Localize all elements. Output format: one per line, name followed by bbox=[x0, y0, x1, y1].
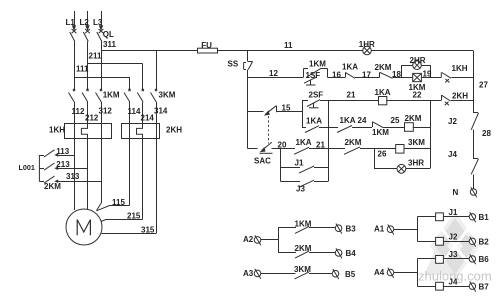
svg-text:FU: FU bbox=[201, 41, 212, 50]
svg-text:3HR: 3HR bbox=[408, 158, 424, 167]
contactor 3KM main pole 1 bbox=[124, 89, 131, 124]
SAC mechanical dashed link bbox=[268, 116, 270, 144]
svg-text:N: N bbox=[453, 188, 459, 197]
svg-text:B7: B7 bbox=[479, 282, 490, 291]
thermal contact 1KH NC bbox=[431, 64, 474, 83]
wire 215 bbox=[101, 211, 143, 221]
phase lead L1 bbox=[66, 11, 77, 33]
svg-text:L001: L001 bbox=[19, 163, 35, 172]
wire 24 bbox=[358, 116, 367, 125]
svg-text:215: 215 bbox=[127, 211, 141, 220]
svg-text:313: 313 bbox=[66, 172, 80, 181]
wire 21 (lower) bbox=[316, 140, 325, 149]
contactor contact 1KM NC (row 24) bbox=[372, 122, 404, 137]
2KM bypass contact wire 213 bbox=[39, 160, 87, 170]
svg-text:2HR: 2HR bbox=[410, 56, 426, 65]
terminal B2 bbox=[469, 237, 489, 247]
svg-text:212: 212 bbox=[85, 114, 99, 123]
wire 16 bbox=[332, 70, 341, 79]
switch QL pole 1 blade bbox=[70, 32, 75, 90]
wire label 212 bbox=[85, 114, 99, 123]
svg-text:L2: L2 bbox=[80, 18, 90, 27]
contactor 1KM main pole 3 bbox=[96, 89, 120, 124]
2KM bypass contact wire 313 bbox=[39, 172, 101, 183]
svg-text:A1: A1 bbox=[374, 225, 385, 234]
wire drop to 3KM pole 3 bbox=[156, 51, 158, 91]
svg-text:12: 12 bbox=[269, 69, 278, 78]
terminal B1 bbox=[469, 212, 489, 222]
fuse FU bbox=[198, 41, 218, 53]
svg-text:A3: A3 bbox=[243, 269, 254, 278]
svg-text:2KM: 2KM bbox=[375, 63, 392, 72]
terminal A2 bbox=[243, 235, 261, 245]
svg-text:314: 314 bbox=[154, 106, 168, 115]
svg-text:213: 213 bbox=[56, 160, 70, 169]
A4 branch wiring bbox=[394, 259, 418, 287]
svg-text:1KM: 1KM bbox=[309, 59, 326, 68]
contactor 2KM bypass left bus bbox=[19, 155, 62, 191]
svg-text:28: 28 bbox=[482, 129, 491, 138]
thermal relay 2KH box bbox=[122, 124, 183, 139]
svg-text:1KM: 1KM bbox=[295, 219, 312, 228]
start button 2SF / 1KA parallel block bbox=[302, 91, 329, 133]
svg-text:J1: J1 bbox=[295, 159, 304, 168]
thermal contact 2KH NC bbox=[442, 91, 474, 105]
wire label 112 bbox=[72, 107, 85, 116]
svg-text:SS: SS bbox=[228, 59, 239, 68]
svg-text:B6: B6 bbox=[479, 255, 490, 264]
svg-text:113: 113 bbox=[56, 147, 69, 156]
svg-text:B5: B5 bbox=[345, 270, 356, 279]
phase lead L3 bbox=[93, 11, 103, 33]
interlock contact J3 bbox=[281, 180, 329, 193]
svg-text:QL: QL bbox=[103, 30, 114, 39]
svg-text:21: 21 bbox=[316, 140, 325, 149]
contactor contact 2KM NO (row 20) bbox=[328, 138, 374, 154]
fuse J2 to B2 bbox=[418, 232, 470, 245]
1KH pole 1 through bbox=[74, 124, 76, 156]
wire 315 bbox=[101, 226, 156, 235]
lamp 3HR bbox=[374, 158, 430, 173]
wire into motor phase 2 bbox=[87, 169, 89, 211]
svg-text:1KA: 1KA bbox=[342, 63, 358, 72]
svg-text:A2: A2 bbox=[243, 235, 254, 244]
svg-text:21: 21 bbox=[347, 91, 356, 100]
svg-text:1HR: 1HR bbox=[359, 40, 375, 49]
svg-text:214: 214 bbox=[141, 114, 155, 123]
lamp 1HR bbox=[359, 40, 375, 55]
wire 22 bbox=[413, 91, 422, 100]
svg-text:315: 315 bbox=[141, 226, 155, 235]
branch vertical to 3HR bbox=[374, 149, 376, 169]
2KH pole 3 through bbox=[156, 124, 158, 234]
wire 11 bbox=[218, 41, 474, 51]
relay coil 1KA bbox=[375, 88, 442, 105]
wire 311 to fuse bbox=[101, 40, 198, 51]
terminal B7 bbox=[469, 282, 489, 292]
terminal B6 bbox=[469, 254, 489, 264]
wire label 114 bbox=[128, 107, 141, 116]
svg-text:2SF: 2SF bbox=[309, 91, 324, 100]
contactor 1KM main pole 2 bbox=[82, 89, 89, 124]
svg-text:J2: J2 bbox=[449, 232, 458, 241]
switch QL pole 2 blade bbox=[83, 32, 88, 90]
svg-text:1KA: 1KA bbox=[306, 117, 322, 126]
svg-text:22: 22 bbox=[413, 91, 422, 100]
2KH pole 2 heater jog bbox=[137, 124, 143, 220]
svg-text:25: 25 bbox=[391, 116, 400, 125]
terminal B4 bbox=[335, 248, 356, 258]
terminal N bbox=[453, 187, 477, 197]
terminal A1 bbox=[374, 225, 394, 235]
svg-text:B2: B2 bbox=[479, 237, 490, 246]
svg-text:1KH: 1KH bbox=[452, 64, 468, 73]
svg-text:B3: B3 bbox=[346, 224, 357, 233]
contactor 3KM main pole 2 bbox=[137, 89, 144, 124]
1KH pole 3 through bbox=[101, 124, 103, 182]
svg-text:11: 11 bbox=[284, 41, 293, 50]
wire 18 bbox=[392, 70, 401, 79]
svg-text:2KM: 2KM bbox=[405, 114, 422, 123]
wire 12 bbox=[248, 69, 304, 78]
wire into motor phase 1 bbox=[74, 155, 76, 210]
phase lead L2 bbox=[80, 11, 90, 33]
svg-text:211: 211 bbox=[89, 52, 102, 61]
coil 3KM bbox=[374, 138, 430, 153]
svg-text:1SF: 1SF bbox=[306, 71, 321, 80]
wire 115 bbox=[97, 198, 130, 211]
wire 25 bbox=[391, 116, 400, 125]
vertical 21-J1-J3 bbox=[328, 101, 330, 182]
right bus wire 27 bbox=[474, 51, 489, 113]
wire 17 bbox=[362, 70, 371, 79]
svg-text:3KM: 3KM bbox=[159, 91, 176, 100]
svg-text:2KM: 2KM bbox=[295, 244, 312, 253]
A2 branch wiring bbox=[261, 228, 279, 253]
relay contact 1KA NC (row 12) bbox=[328, 63, 380, 79]
thermal relay 1KH box bbox=[49, 124, 112, 139]
terminal B5 bbox=[332, 269, 356, 279]
coil 2KM bbox=[405, 114, 431, 131]
svg-text:311: 311 bbox=[103, 40, 116, 49]
coil return vertical bbox=[430, 101, 432, 169]
wire into motor phase 3 bbox=[97, 182, 102, 211]
wire 211 branch bbox=[88, 52, 143, 91]
svg-text:A4: A4 bbox=[374, 268, 385, 277]
bus to N terminal bbox=[473, 175, 475, 189]
watermark logo bbox=[424, 212, 480, 280]
contact J2 bbox=[448, 113, 479, 130]
svg-text:1KA: 1KA bbox=[340, 116, 356, 125]
2KM bypass contact wire 113 bbox=[39, 147, 74, 157]
control bus below SS bbox=[247, 70, 249, 149]
contact 2KM to B4 bbox=[278, 244, 335, 258]
svg-text:L1: L1 bbox=[66, 18, 76, 27]
contactor 1KM main pole 1 bbox=[69, 89, 76, 124]
selector SAC lower contact bbox=[254, 142, 273, 165]
svg-text:2KH: 2KH bbox=[452, 91, 468, 100]
svg-text:111: 111 bbox=[76, 65, 89, 74]
svg-text:114: 114 bbox=[128, 107, 141, 116]
wire 21 (upper) bbox=[328, 91, 379, 101]
watermark text zhulong.com bbox=[418, 269, 492, 284]
2KH pole 1 through bbox=[129, 124, 131, 206]
wire label 312 bbox=[99, 106, 113, 115]
svg-text:J4: J4 bbox=[448, 150, 457, 159]
selector SAC upper contact bbox=[264, 106, 277, 116]
svg-text:J3: J3 bbox=[296, 185, 305, 194]
motor M bbox=[66, 209, 102, 245]
svg-text:18: 18 bbox=[392, 70, 401, 79]
svg-text:1KA: 1KA bbox=[375, 88, 391, 97]
coil 1KM (square with X) bbox=[402, 73, 431, 91]
contact 3KM to B5 bbox=[261, 265, 332, 279]
contactor 3KM main pole 3 bbox=[151, 89, 176, 124]
contact J4 bbox=[448, 150, 479, 174]
terminal A3 bbox=[243, 269, 261, 279]
svg-text:J2: J2 bbox=[448, 117, 457, 126]
right bus wire 28 bbox=[474, 129, 492, 158]
svg-text:312: 312 bbox=[99, 106, 113, 115]
svg-text:B1: B1 bbox=[479, 213, 490, 222]
contactor contact 2KM NC (row 12) bbox=[375, 63, 402, 78]
svg-text:2KM: 2KM bbox=[345, 138, 362, 147]
seal-in block 1KM / start button 1SF bbox=[304, 59, 328, 85]
svg-text:15: 15 bbox=[282, 104, 291, 113]
fuse J1 to B1 bbox=[418, 208, 470, 221]
svg-text:115: 115 bbox=[112, 198, 125, 207]
wire 19 bbox=[423, 70, 432, 79]
svg-text:SAC: SAC bbox=[254, 157, 271, 166]
svg-text:3KM: 3KM bbox=[408, 138, 425, 147]
contact 1KM to B3 bbox=[278, 219, 335, 233]
svg-text:J1: J1 bbox=[449, 208, 458, 217]
1KH pole 2 heater jog bbox=[81, 124, 87, 169]
lamp 2HR parallel block bbox=[402, 56, 431, 78]
switch QL pole 3 blade bbox=[97, 30, 114, 90]
svg-text:17: 17 bbox=[362, 70, 371, 79]
svg-text:112: 112 bbox=[72, 107, 85, 116]
control bus from node at wire 11 bbox=[247, 51, 249, 62]
terminal B3 bbox=[335, 224, 356, 234]
wire 20 row from bus bbox=[248, 140, 287, 149]
svg-text:1KA: 1KA bbox=[296, 138, 312, 147]
svg-text:27: 27 bbox=[479, 80, 488, 89]
wire 111 branch bbox=[74, 65, 130, 91]
stop button SS bbox=[228, 59, 253, 69]
relay contact 1KA NO (row 20) bbox=[281, 138, 329, 155]
svg-text:2KH: 2KH bbox=[166, 125, 182, 134]
wire label 314 bbox=[154, 106, 168, 115]
vertical left of J1/J3 bbox=[280, 149, 282, 182]
svg-text:J3: J3 bbox=[449, 250, 458, 259]
svg-text:3KM: 3KM bbox=[294, 265, 311, 274]
svg-text:1KM: 1KM bbox=[103, 91, 120, 100]
relay contact 1KA NO (row 24) bbox=[328, 116, 372, 133]
svg-text:26: 26 bbox=[378, 150, 387, 159]
wire 26 bbox=[378, 150, 387, 159]
svg-text:24: 24 bbox=[358, 116, 367, 125]
wire label 214 bbox=[141, 114, 155, 123]
svg-text:B4: B4 bbox=[346, 249, 357, 258]
wire 15 bbox=[248, 104, 303, 113]
svg-text:L3: L3 bbox=[93, 18, 103, 27]
svg-text:2KM: 2KM bbox=[44, 182, 61, 191]
svg-text:J4: J4 bbox=[449, 277, 458, 286]
svg-text:1KH: 1KH bbox=[49, 125, 65, 134]
terminal A4 bbox=[374, 268, 394, 278]
fuse J4 to B7 bbox=[418, 277, 470, 290]
interlock contact J1 bbox=[281, 159, 329, 173]
A1 branch wiring bbox=[394, 217, 418, 242]
fuse J3 to B6 bbox=[418, 250, 470, 263]
svg-text:1KM: 1KM bbox=[372, 128, 389, 137]
